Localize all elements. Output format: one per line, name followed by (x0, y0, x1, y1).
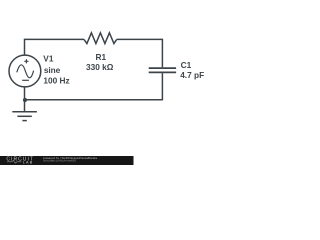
svg-text:330 kΩ: 330 kΩ (86, 62, 114, 72)
svg-text:C1: C1 (181, 60, 192, 70)
capacitor C1 (149, 68, 176, 72)
svg-text:4.7 pF: 4.7 pF (180, 70, 204, 80)
node junction (23, 98, 27, 102)
ground (12, 100, 37, 121)
svg-text:R1: R1 (96, 52, 107, 62)
wire bottom rail (25, 99, 163, 101)
watermark bar (0, 156, 134, 165)
wire capacitor top lead (161, 39, 163, 68)
wire top rail left (25, 38, 85, 40)
svg-text:sine: sine (44, 65, 61, 75)
svg-text:circuitlab.com/c/rmaxk56: circuitlab.com/c/rmaxk56 (43, 158, 76, 162)
wire top rail right (117, 38, 163, 40)
wire source bottom lead (24, 87, 26, 100)
watermark CircuitLab logo (6, 157, 34, 165)
watermark credit text (43, 156, 97, 163)
svg-text:V1: V1 (43, 53, 54, 63)
svg-text:LAB: LAB (23, 160, 34, 164)
voltage source V1 (9, 55, 41, 87)
wire capacitor bottom lead (161, 73, 163, 100)
svg-text:100 Hz: 100 Hz (43, 76, 69, 86)
resistor R1 (84, 33, 117, 44)
wire source top lead (24, 39, 26, 56)
